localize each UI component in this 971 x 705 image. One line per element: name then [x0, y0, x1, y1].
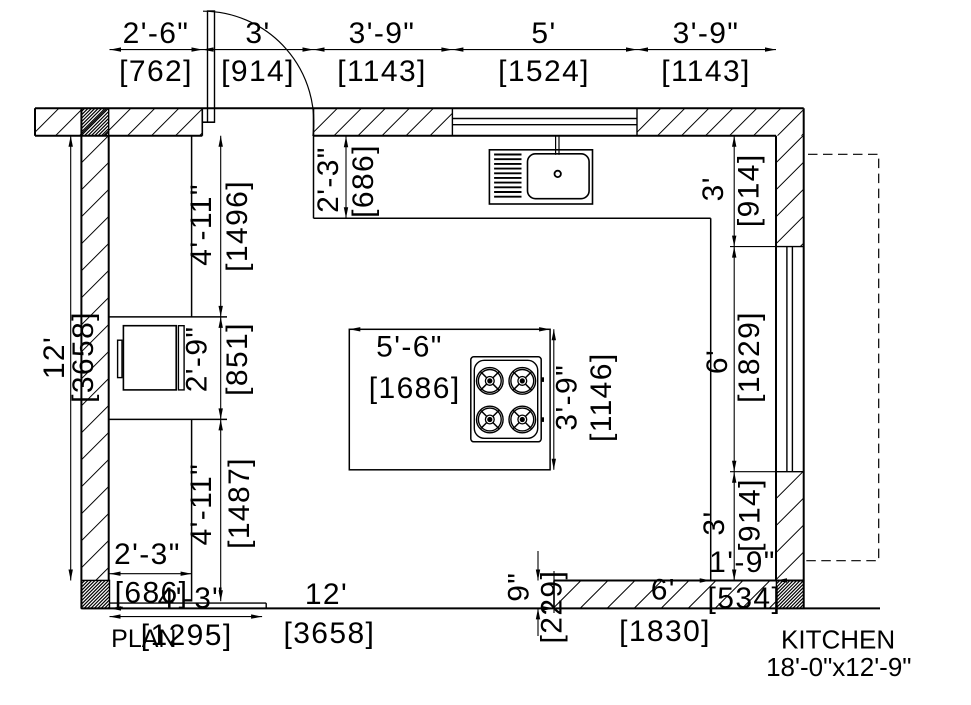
- svg-text:4'-3": 4'-3": [158, 582, 225, 615]
- top wall hatch right: [609, 108, 829, 136]
- right wall hatch upper: [665, 136, 911, 247]
- sink unit outline: [489, 150, 592, 204]
- svg-text:[762]: [762]: [119, 55, 193, 88]
- svg-text:4'-11": 4'-11": [185, 463, 218, 546]
- svg-text:3': 3': [245, 17, 270, 50]
- top wall outer edge: [35, 107, 804, 109]
- svg-text:2'-6": 2'-6": [123, 17, 190, 50]
- dimension line left interior chain: [219, 136, 223, 602]
- svg-text:2'-3": 2'-3": [312, 146, 345, 213]
- right wall hatch lower: [667, 472, 911, 581]
- dimension 6' [1830]: [619, 574, 711, 649]
- svg-text:3': 3': [698, 510, 731, 535]
- svg-text:[1524]: [1524]: [498, 55, 590, 88]
- svg-text:[3658]: [3658]: [283, 617, 375, 650]
- svg-text:12': 12': [305, 578, 348, 611]
- dimension line island depth: [552, 329, 556, 470]
- svg-text:9": 9": [503, 572, 536, 602]
- wall column block bottom-left: [53, 580, 135, 608]
- svg-text:[1143]: [1143]: [661, 55, 751, 88]
- dimension line top chain: [110, 47, 777, 51]
- label KITCHEN room name: [766, 625, 911, 683]
- dimension 12' [3658] bottom: [110, 578, 554, 650]
- svg-text:4'-11": 4'-11": [185, 183, 218, 266]
- sink drainboard: [494, 155, 521, 197]
- svg-text:3'-9": 3'-9": [551, 364, 584, 431]
- door left jamb: [202, 108, 214, 136]
- dimension line 1'-9": [700, 578, 787, 582]
- stove burner 4: [509, 406, 536, 433]
- svg-text:[914]: [914]: [732, 153, 765, 227]
- wall column block bottom-right: [749, 581, 831, 609]
- left counter lower: [109, 419, 227, 601]
- svg-text:[229]: [229]: [535, 570, 568, 644]
- svg-text:[1487]: [1487]: [223, 457, 256, 549]
- dimension line right interior chain: [730, 136, 776, 581]
- stove burner 3: [477, 406, 504, 433]
- door D1 swing arc: [203, 11, 314, 136]
- bottom outer edge line: [81, 607, 880, 609]
- dimension line 2'-3" bottom: [110, 572, 192, 576]
- dimension 2'-3" [686] bottom: [114, 538, 188, 610]
- low partition bar bottom-left: [110, 603, 267, 608]
- window W1 top wall glazing lines: [452, 108, 637, 136]
- svg-text:5': 5': [531, 17, 556, 50]
- svg-text:[1829]: [1829]: [733, 311, 766, 403]
- label PLAN: [111, 625, 176, 653]
- svg-text:5'-6": 5'-6": [376, 331, 443, 364]
- svg-text:18'-0"x12'-9": 18'-0"x12'-9": [766, 652, 911, 682]
- top wall inner edge right segment: [314, 135, 777, 137]
- window W2 right wall: [776, 247, 804, 472]
- svg-text:[1496]: [1496]: [221, 180, 254, 272]
- bottom wall inner edge: [554, 581, 804, 609]
- dimension 2'-9" [851]: [181, 322, 254, 396]
- svg-text:[851]: [851]: [221, 322, 254, 396]
- dimension 6' [1829]: [701, 311, 766, 403]
- dimension 3' [914] right upper: [697, 153, 766, 227]
- svg-text:6': 6': [651, 574, 676, 607]
- svg-text:2'-9": 2'-9": [181, 326, 214, 393]
- svg-text:KITCHEN: KITCHEN: [781, 625, 895, 655]
- stove S1 knobs: [541, 377, 544, 422]
- top counter edge: [314, 136, 711, 219]
- sink faucet supply lines: [556, 136, 559, 155]
- dimension 4'-11" [1487]: [185, 457, 256, 549]
- dimension 4'-3" [1295]: [141, 582, 233, 652]
- svg-text:6': 6': [701, 349, 734, 374]
- dimension 3' [914] top: [221, 17, 295, 88]
- island counter: [349, 329, 550, 470]
- left wall inner edge: [108, 136, 110, 581]
- svg-text:[914]: [914]: [221, 55, 295, 88]
- sink drain: [555, 171, 561, 177]
- svg-text:PLAN: PLAN: [111, 625, 176, 653]
- svg-text:3': 3': [697, 176, 730, 201]
- left wall outer edge: [80, 108, 82, 608]
- right wall outer edge: [803, 108, 805, 608]
- dimension line left outer: [69, 136, 73, 581]
- top wall hatch left: [7, 108, 227, 136]
- dimension 3'-9" [1143] right: [661, 17, 751, 88]
- dimension 3' [914] right lower: [698, 478, 766, 552]
- svg-text:[686]: [686]: [347, 144, 380, 218]
- svg-text:[914]: [914]: [734, 478, 767, 552]
- svg-text:[1830]: [1830]: [619, 615, 711, 648]
- wall column block top-left: [54, 108, 136, 136]
- dimension line counter depth 2'-3": [344, 136, 348, 219]
- dimension 5'-6" [1686] island width: [349, 327, 550, 405]
- stove burner 1: [477, 368, 504, 395]
- top wall left end cap: [34, 108, 36, 136]
- dimension 3'-9" [1146] island depth: [551, 352, 618, 442]
- stove S1 outline: [471, 357, 541, 442]
- svg-text:[1686]: [1686]: [369, 372, 461, 405]
- appliance A1 right handle: [178, 326, 184, 390]
- dimension 2'-6" [762]: [119, 17, 193, 88]
- svg-text:2'-3": 2'-3": [114, 538, 181, 571]
- svg-text:[1146]: [1146]: [585, 352, 618, 442]
- dimension line 9": [536, 551, 554, 636]
- door right jamb: [313, 108, 315, 136]
- svg-text:1'-9": 1'-9": [709, 546, 776, 579]
- dimension line 4'-3": [110, 614, 263, 618]
- door D1 leaf: [208, 11, 215, 122]
- right counter edge: [710, 218, 712, 580]
- dimension 5' [1524]: [498, 17, 590, 88]
- svg-text:[1143]: [1143]: [337, 55, 427, 88]
- left counter upper: [109, 136, 227, 317]
- svg-text:3'-9": 3'-9": [673, 17, 740, 50]
- sink basin: [528, 154, 590, 199]
- left wall hatch: [0, 136, 540, 581]
- stove burner 2: [509, 368, 536, 395]
- svg-text:[3658]: [3658]: [67, 311, 100, 403]
- dimension 4'-11" [1496]: [185, 180, 254, 272]
- svg-text:3'-9": 3'-9": [349, 17, 416, 50]
- dashed projection outline right: [806, 154, 879, 560]
- dimension 3'-9" [1143] left: [337, 17, 427, 88]
- appliance A1 left handle: [118, 340, 122, 377]
- dimension 9" [229]: [503, 570, 569, 644]
- top wall inner edge left segment: [35, 135, 202, 137]
- dimension 2'-3" [686] top: [312, 144, 380, 218]
- appliance A1 body: [123, 326, 176, 390]
- bottom wall hatch: [526, 581, 797, 609]
- top wall hatch middle: [286, 108, 458, 136]
- right wall inner edge: [775, 136, 777, 581]
- dimension 1'-9" [534]: [708, 546, 782, 615]
- svg-text:[534]: [534]: [708, 582, 782, 615]
